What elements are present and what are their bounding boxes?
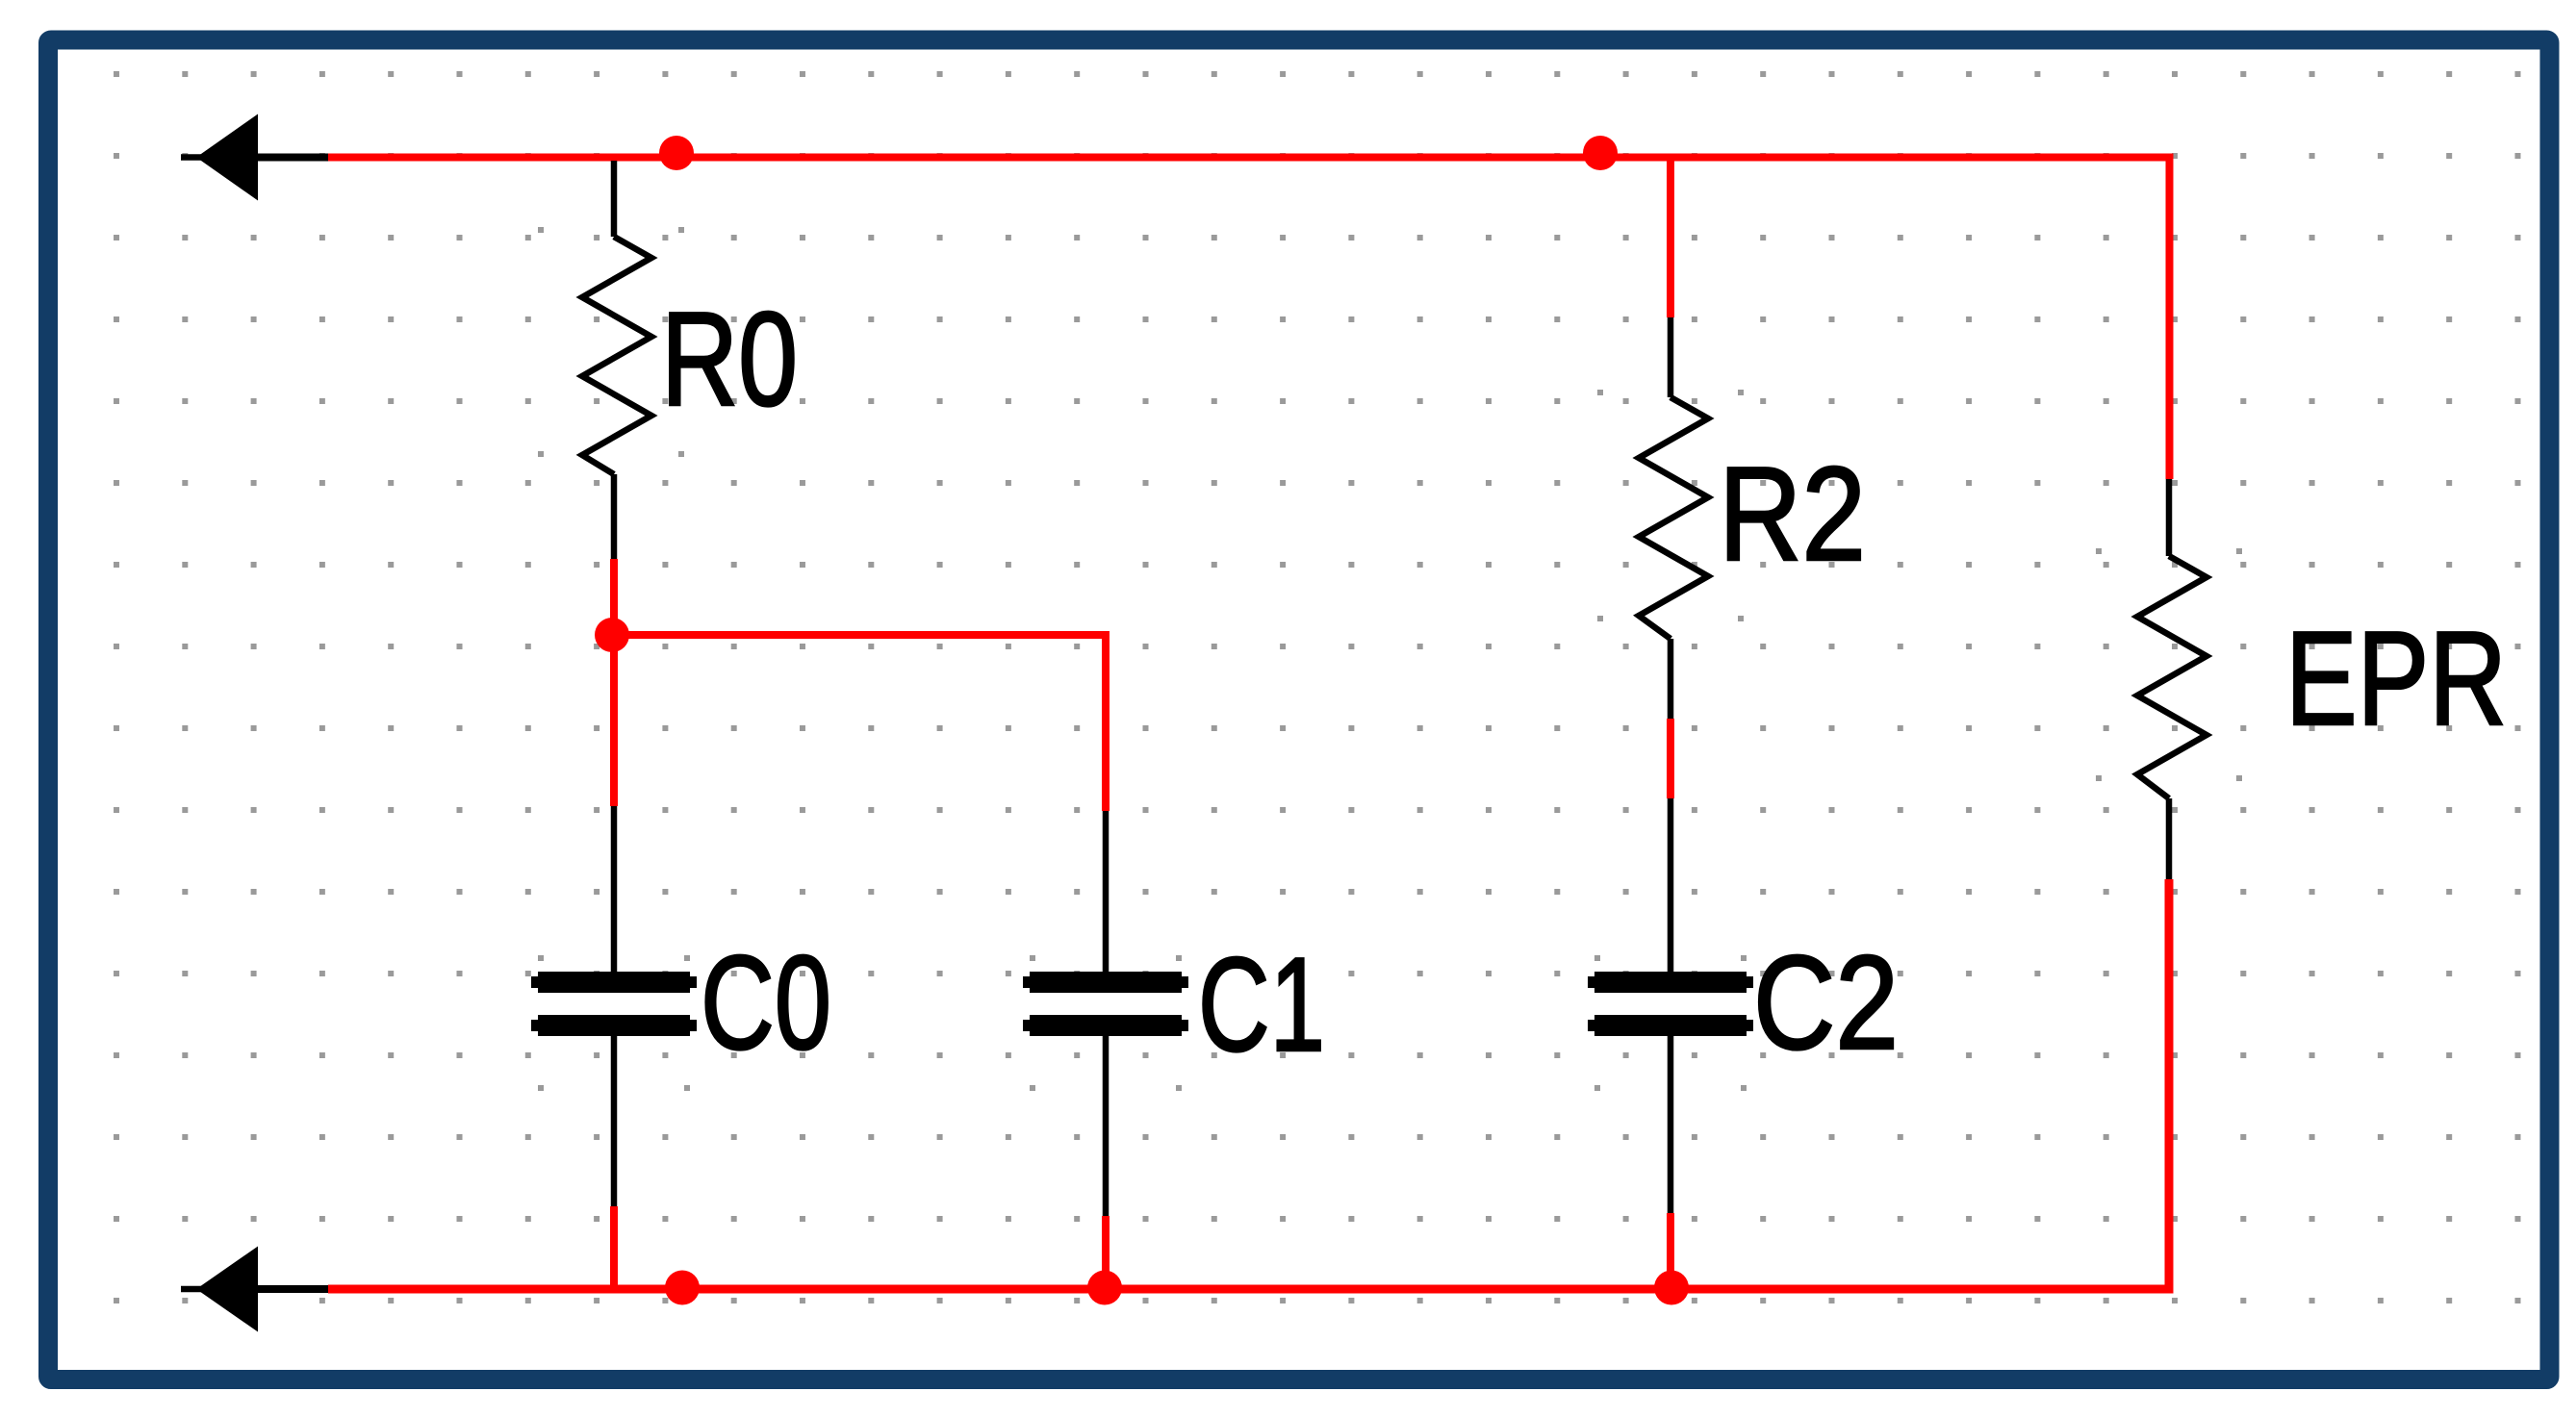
wire top-left black segment: [254, 154, 328, 162]
node F junction dot bottom (C2): [1654, 1271, 1689, 1305]
svg-text:C2: C2: [1753, 928, 1899, 1077]
capacitor C2: [1588, 798, 1899, 1213]
svg-text:C0: C0: [701, 928, 831, 1077]
wire bottom-left black segment: [254, 1285, 328, 1293]
svg-text:R0: R0: [661, 285, 798, 434]
node B junction dot top-right: [1583, 136, 1618, 170]
svg-text:R2: R2: [1719, 440, 1866, 589]
port arrow bottom-left: [181, 1247, 258, 1332]
node C junction dot mid: [595, 618, 629, 652]
svg-text:EPR: EPR: [2285, 604, 2507, 753]
resistor R0: [538, 161, 798, 559]
wire C2 bottom red: [1667, 1213, 1674, 1289]
port arrow top-left: [181, 114, 258, 201]
capacitor C1: [1023, 811, 1325, 1216]
wire C1 bottom red: [1102, 1216, 1109, 1289]
node A junction dot top-left: [659, 136, 694, 170]
wire C0 bottom red: [610, 1206, 618, 1289]
wire R2 to C2 (red middle): [1667, 719, 1674, 798]
node MID-NET wire (red): [614, 631, 1106, 811]
node TOP-NET wire (red): [328, 158, 2170, 480]
resistor R2: [1597, 317, 1866, 719]
wire EPR bottom red + node BOTTOM-NET wire (red): [328, 879, 2169, 1289]
wire R0 bottom red: [610, 559, 618, 635]
node D junction dot bottom (near C0): [665, 1271, 700, 1305]
resistor EPR: [2096, 479, 2507, 879]
node E junction dot bottom (C1): [1087, 1271, 1122, 1305]
capacitor C0: [531, 806, 831, 1206]
wire R2 top drop (red): [1667, 157, 1674, 317]
svg-text:C1: C1: [1198, 930, 1325, 1079]
